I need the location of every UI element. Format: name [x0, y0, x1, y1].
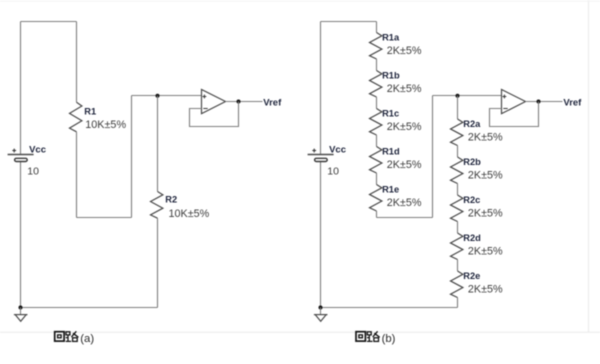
wire loop bottom a [77, 217, 132, 219]
wire top a (battery to R1 branch) [21, 21, 77, 23]
wire op-amp U1 output [226, 101, 263, 103]
wire R2b-R2c link [457, 184, 459, 196]
svg-text:10K±5%: 10K±5% [169, 208, 210, 220]
svg-text:2K±5%: 2K±5% [387, 197, 422, 209]
battery V2 (b) plus sign [312, 150, 316, 152]
svg-text:2K±5%: 2K±5% [387, 45, 422, 57]
svg-text:R1: R1 [84, 107, 96, 117]
wire feedback loop b [490, 102, 539, 127]
wire battery V2 top lead [320, 22, 322, 156]
resistor R1 [70, 102, 82, 132]
resistor R2a [451, 119, 463, 146]
ground symbol a [20, 308, 22, 315]
resistor R1d [370, 147, 382, 174]
wire R2c-R2d link [457, 222, 459, 234]
svg-text:10K±5%: 10K±5% [85, 119, 126, 131]
wire R1c-R1d link [376, 135, 378, 147]
svg-text:10: 10 [27, 166, 39, 178]
wire R2a top lead [457, 96, 459, 119]
wire R1 top lead [76, 22, 78, 103]
svg-text:Vcc: Vcc [29, 144, 46, 155]
svg-text:R1b: R1b [382, 70, 400, 80]
op-amp U2 (b) minus input marking [503, 108, 507, 110]
wire R2e bottom lead [457, 298, 459, 308]
resistor R1a [370, 33, 382, 60]
wire battery V2 bottom lead [320, 158, 322, 307]
battery V1 (a) plus sign [12, 150, 16, 152]
wire R2d-R2e link [457, 260, 459, 272]
resistor R2 [151, 192, 163, 219]
caption 回路 (b) - kanji kai [356, 332, 365, 341]
svg-text:2K±5%: 2K±5% [387, 159, 422, 171]
wire R1b-R1c link [376, 97, 378, 109]
page border right [588, 0, 590, 332]
svg-text:2K±5%: 2K±5% [387, 121, 422, 133]
svg-text:R2d: R2d [463, 233, 481, 243]
svg-text:R1e: R1e [382, 184, 399, 194]
svg-text:2K±5%: 2K±5% [468, 207, 503, 219]
caption 回路 (b) - kanji ro [367, 331, 380, 341]
wire R1 bottom lead [76, 132, 78, 218]
op-amp U2 (b) body [502, 90, 526, 114]
resistor R1c [370, 109, 382, 136]
wire top b (battery to R1 chain) [321, 21, 377, 23]
junction node at ground b [319, 306, 323, 310]
resistor R1b [370, 71, 382, 98]
wire R1e bottom lead [376, 211, 378, 218]
svg-text:Vcc: Vcc [329, 144, 346, 155]
svg-text:R2: R2 [165, 194, 177, 204]
battery V2 (b) top plate [308, 154, 334, 156]
svg-text:R2e: R2e [463, 271, 480, 281]
wire bottom a [21, 307, 158, 309]
svg-text:2K±5%: 2K±5% [468, 245, 503, 257]
svg-text:2K±5%: 2K±5% [468, 283, 503, 295]
ground symbol b [320, 308, 322, 315]
resistor R1e [370, 185, 382, 212]
resistor R2b [451, 157, 463, 184]
svg-text:R1d: R1d [382, 146, 400, 156]
svg-text:(b): (b) [382, 333, 396, 345]
op-amp U1 (a) body [202, 90, 226, 114]
wire bottom b [321, 307, 458, 309]
wire op-amp U2 output [526, 101, 563, 103]
svg-text:2K±5%: 2K±5% [468, 131, 503, 143]
caption 回路 (a) - kanji kai [55, 332, 64, 341]
wire R2a-R2b link [457, 146, 459, 158]
page border bottom [0, 331, 600, 333]
wire R2 bottom lead [157, 218, 159, 307]
op-amp U1 (a) plus input marking [203, 96, 207, 98]
svg-text:10: 10 [327, 166, 339, 178]
battery V1 (a) top plate [8, 154, 34, 156]
battery V2 (b) negative plate [315, 158, 328, 161]
junction node at ground a [19, 306, 23, 310]
junction node output b [537, 100, 541, 104]
junction node divider b [456, 94, 460, 98]
wire loop bottom b [377, 217, 433, 219]
svg-text:R2a: R2a [463, 119, 481, 129]
svg-text:Vref: Vref [563, 97, 582, 108]
resistor R2c [451, 195, 463, 222]
wire R1a top lead [376, 22, 378, 33]
op-amp U2 (b) plus input marking [503, 96, 507, 98]
junction node divider a [156, 94, 160, 98]
wire node line a (to op-amp + input) [132, 95, 202, 97]
wire battery V1 top lead [20, 22, 22, 156]
svg-text:R1a: R1a [382, 32, 400, 42]
svg-text:R2b: R2b [463, 157, 481, 167]
wire node line b (to op-amp + input) [433, 95, 502, 97]
svg-text:Vref: Vref [263, 97, 282, 108]
svg-text:R1c: R1c [382, 108, 399, 118]
wire feedback loop a [190, 102, 239, 127]
wire battery V1 bottom lead [20, 158, 22, 307]
svg-text:R2c: R2c [463, 195, 480, 205]
wire R1a-R1b link [376, 59, 378, 71]
resistor R2e [451, 271, 463, 298]
resistor R2d [451, 233, 463, 260]
wire R2 top lead [157, 96, 159, 192]
svg-text:2K±5%: 2K±5% [468, 169, 503, 181]
caption 回路 (a) - kanji ro [66, 331, 79, 341]
wire loop riser b [432, 96, 434, 218]
wire R1d-R1e link [376, 173, 378, 185]
page border top [0, 0, 600, 2]
op-amp U1 (a) minus input marking [203, 108, 207, 110]
svg-text:(a): (a) [80, 333, 94, 345]
battery V1 (a) negative plate [15, 158, 28, 161]
svg-text:2K±5%: 2K±5% [387, 83, 422, 95]
junction node output a [237, 100, 241, 104]
wire loop riser a [131, 96, 133, 218]
